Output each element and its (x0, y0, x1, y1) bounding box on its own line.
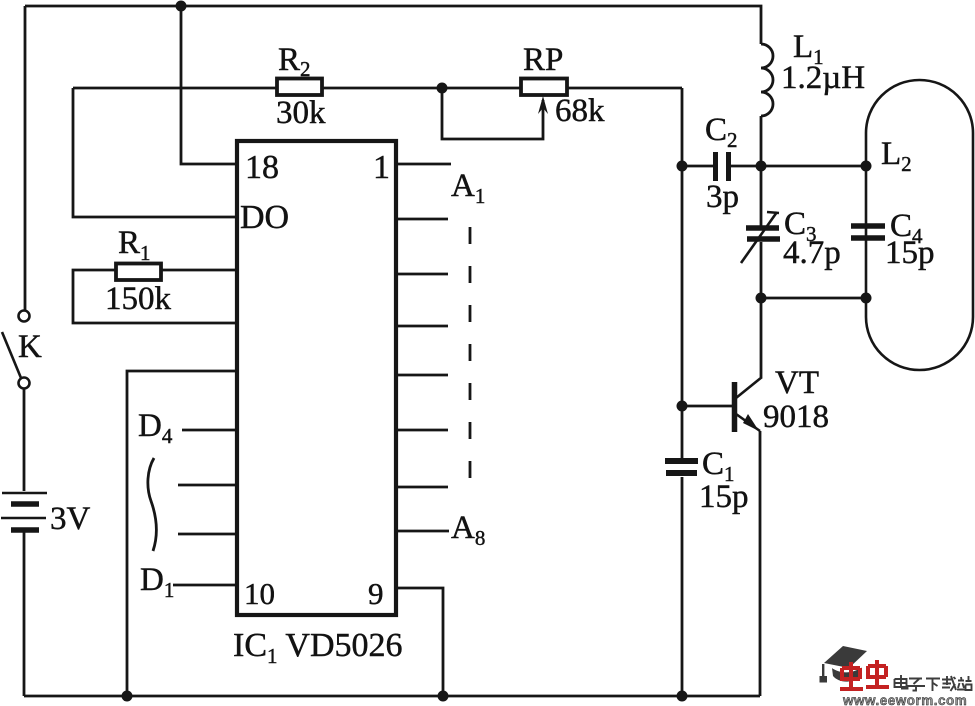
IC U1 VD5026 box (237, 141, 396, 615)
svg-text:DO: DO (240, 199, 289, 236)
battery 3V (1, 493, 47, 530)
svg-text:C2: C2 (705, 112, 738, 152)
pin 1 stub (397, 163, 451, 166)
node C3 bottom (756, 293, 767, 304)
wire emitter down (759, 431, 762, 696)
svg-text:150k: 150k (105, 281, 172, 317)
wire RP arrowhead (538, 96, 548, 114)
potentiometer RP (521, 79, 567, 96)
wire C2 right (731, 165, 761, 168)
wire C2 node to L2 (761, 165, 866, 168)
wire L1 bottom (760, 116, 763, 166)
svg-text:RP: RP (523, 42, 563, 78)
node L1 bottom (756, 161, 767, 172)
pin D4 (182, 429, 236, 432)
wire collector (760, 298, 763, 377)
pin A7 stub (397, 486, 448, 489)
wire top rail (25, 6, 761, 44)
svg-text:15p: 15p (885, 235, 935, 271)
node RP junction (437, 83, 448, 94)
resistor R2 (277, 79, 322, 96)
node bottom C1 (677, 691, 688, 702)
svg-text:9: 9 (368, 576, 384, 611)
svg-text:1.2µH: 1.2µH (781, 60, 865, 96)
wire pin 18 (181, 6, 236, 164)
pin D2 (178, 533, 236, 536)
svg-text:9018: 9018 (763, 399, 829, 435)
svg-text:10: 10 (244, 576, 275, 611)
transistor VT 9018 (735, 377, 763, 432)
capacitor C3 variable (741, 212, 780, 263)
svg-text:30k: 30k (276, 95, 326, 131)
wire battery to bottom rail (23, 531, 26, 696)
svg-text:R2: R2 (278, 42, 311, 81)
wire C1 top (681, 406, 684, 458)
svg-text:VT: VT (775, 365, 819, 401)
node L2 top (861, 161, 872, 172)
wire C3 top (760, 166, 763, 226)
capacitor C4 (851, 226, 885, 238)
watermark chongchong characters (840, 660, 889, 689)
node C2 left (677, 161, 688, 172)
svg-text:1: 1 (373, 149, 390, 186)
pin A6 stub (397, 429, 448, 432)
pin A3 stub (397, 273, 448, 276)
watermark graduation cap (820, 646, 868, 683)
svg-text:68k: 68k (555, 93, 605, 129)
pin D1 (173, 584, 236, 587)
wire DO output (73, 88, 236, 217)
wire C1 bottom (681, 477, 684, 696)
pin A2 stub (397, 218, 448, 221)
dashed line A1-A8 (469, 227, 472, 495)
svg-text:IC1 VD5026: IC1 VD5026 (233, 627, 403, 668)
svg-text:3p: 3p (706, 179, 739, 215)
node C4 bottom (861, 293, 872, 304)
pin D3 (178, 484, 236, 487)
watermark site name glyphs (895, 675, 972, 691)
wire oscillator row (73, 87, 682, 90)
wire RP wiper (442, 88, 543, 139)
switch K (2, 311, 30, 389)
wire left rail (24, 6, 27, 311)
wire C3 bottom (760, 242, 763, 298)
wire C3-C4 bottom row (761, 297, 866, 300)
wire pin 9 (397, 588, 443, 696)
svg-text:A8: A8 (451, 510, 485, 550)
wire C2 left (682, 165, 713, 168)
squiggle D4-D1 (148, 458, 156, 551)
pin A5 stub (397, 374, 448, 377)
svg-text:4.7p: 4.7p (783, 235, 841, 271)
svg-text:15p: 15p (699, 479, 749, 515)
inductor L1 (761, 44, 773, 116)
node transistor base (677, 401, 688, 412)
wire base to transistor (682, 405, 732, 408)
svg-text:www.eeworm.com: www.eeworm.com (842, 693, 967, 706)
svg-text:D1: D1 (140, 562, 174, 602)
wire ground bus to pin (127, 371, 236, 696)
capacitor C1 (665, 461, 698, 473)
svg-text:3V: 3V (50, 501, 91, 537)
pin A8 stub (397, 530, 449, 533)
node bottom pin9 (438, 691, 449, 702)
svg-text:D4: D4 (138, 408, 173, 448)
pin A4 stub (397, 325, 448, 328)
svg-text:K: K (18, 329, 42, 365)
capacitor C2 (716, 152, 729, 181)
node top junction (176, 1, 187, 12)
svg-text:18: 18 (245, 149, 279, 186)
wire base drop (681, 166, 684, 406)
resistor R1 (116, 264, 161, 281)
wire switch to battery (23, 389, 26, 491)
antenna loop L2 (866, 80, 973, 370)
svg-text:L2: L2 (881, 136, 912, 176)
wire R1 loop (73, 270, 236, 323)
svg-text:A1: A1 (451, 168, 485, 208)
node bottom bus (122, 691, 133, 702)
wire RP row to C2 (681, 88, 684, 166)
wire bottom rail (24, 695, 760, 698)
svg-text:R1: R1 (118, 225, 151, 265)
